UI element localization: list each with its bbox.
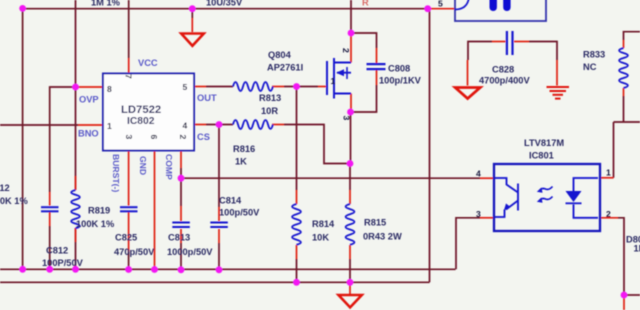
svg-text:8: 8: [107, 84, 112, 94]
svg-text:IC802: IC802: [127, 116, 155, 127]
svg-text:LTV817M: LTV817M: [524, 138, 564, 148]
svg-text:NC: NC: [583, 62, 597, 72]
svg-text:C813: C813: [168, 233, 190, 243]
svg-text:1: 1: [107, 121, 112, 131]
svg-text:AP2761I: AP2761I: [267, 63, 303, 73]
svg-text:R819: R819: [88, 206, 110, 216]
svg-text:C808: C808: [388, 64, 410, 74]
svg-text:BURST(-): BURST(-): [111, 154, 121, 192]
svg-text:10R: 10R: [261, 106, 278, 116]
svg-text:C828: C828: [492, 65, 514, 75]
svg-text:R812: R812: [0, 183, 10, 193]
svg-text:IC801: IC801: [529, 151, 554, 161]
svg-text:R816: R816: [233, 144, 255, 154]
svg-text:7: 7: [124, 74, 134, 79]
svg-text:CS: CS: [197, 132, 210, 142]
svg-text:LD7522: LD7522: [121, 104, 161, 116]
svg-text:2: 2: [606, 209, 611, 219]
svg-text:1N: 1N: [634, 244, 640, 254]
svg-text:R814: R814: [312, 219, 335, 229]
svg-text:R833: R833: [583, 50, 605, 60]
svg-text:0R43 2W: 0R43 2W: [363, 232, 402, 242]
svg-text:R815: R815: [364, 218, 386, 228]
svg-text:100p/50V: 100p/50V: [219, 208, 260, 218]
svg-text:2: 2: [178, 135, 188, 140]
svg-text:3: 3: [476, 209, 481, 219]
svg-text:4700p/400V: 4700p/400V: [479, 76, 530, 86]
svg-text:10K: 10K: [312, 233, 329, 243]
svg-text:C825: C825: [115, 233, 137, 243]
svg-text:R: R: [362, 0, 369, 8]
svg-text:10U/35V: 10U/35V: [206, 0, 243, 8]
svg-text:100K 1%: 100K 1%: [76, 219, 115, 229]
svg-text:1M 1%: 1M 1%: [91, 0, 121, 8]
svg-text:2: 2: [341, 48, 351, 53]
svg-text:OVP: OVP: [79, 95, 99, 105]
svg-text:BNO: BNO: [78, 129, 99, 139]
svg-text:C812: C812: [46, 246, 68, 256]
svg-text:R813: R813: [259, 93, 281, 103]
svg-text:Q804: Q804: [268, 50, 292, 60]
svg-text:COMP: COMP: [164, 154, 174, 180]
svg-text:1K: 1K: [235, 157, 247, 167]
svg-text:4: 4: [476, 169, 481, 179]
svg-text:VCC: VCC: [138, 58, 158, 68]
svg-text:1: 1: [331, 76, 336, 86]
svg-text:C814: C814: [219, 196, 242, 206]
svg-text:4: 4: [183, 121, 188, 131]
svg-text:470p/50V: 470p/50V: [114, 247, 155, 257]
svg-text:100K 1%: 100K 1%: [0, 196, 28, 206]
svg-text:3: 3: [124, 135, 134, 140]
svg-text:5: 5: [183, 82, 188, 92]
svg-text:5: 5: [438, 0, 443, 9]
svg-text:3: 3: [342, 116, 352, 121]
svg-text:GND: GND: [138, 156, 148, 175]
svg-text:6: 6: [149, 135, 159, 140]
svg-text:OUT: OUT: [197, 93, 217, 103]
svg-text:1000p/50V: 1000p/50V: [167, 247, 213, 257]
svg-text:100p/1KV: 100p/1KV: [379, 76, 422, 86]
svg-text:1: 1: [606, 168, 611, 178]
